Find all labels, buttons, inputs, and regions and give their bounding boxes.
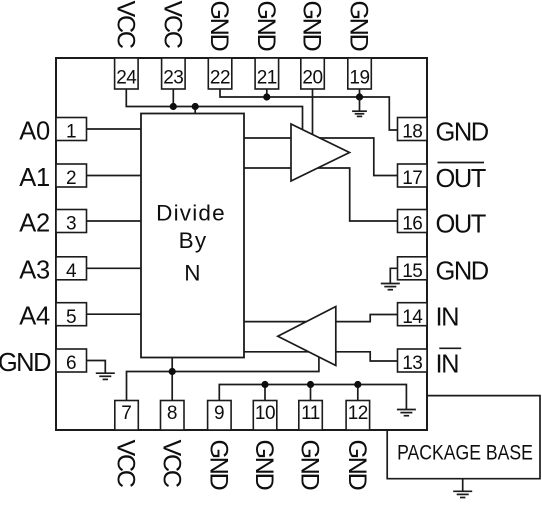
- pin 18 box: [398, 118, 428, 141]
- svg-text:GND: GND: [298, 1, 326, 51]
- svg-text:3: 3: [66, 214, 77, 235]
- ground G1 (top bus): [352, 97, 367, 116]
- pin 22 box: [208, 58, 232, 89]
- node junction dot pin10/bus: [261, 381, 268, 388]
- pin 8 box: [161, 401, 185, 431]
- wire pin5 to block: [87, 313, 142, 315]
- pin 6 box: [56, 349, 87, 372]
- wire pin15 to ground: [390, 268, 397, 283]
- wire block bottom stem / pin8 stem: [171, 358, 173, 401]
- node junction dot bus/block: [192, 103, 199, 110]
- wire block to buffer input 1: [244, 137, 291, 139]
- svg-text:22: 22: [210, 68, 230, 89]
- svg-text:GND: GND: [436, 258, 489, 286]
- svg-text:GND: GND: [250, 440, 278, 490]
- wire buffer out to pin16: [318, 168, 398, 221]
- pin 3 box: [56, 210, 87, 233]
- svg-text:N: N: [184, 261, 201, 286]
- wire GND net bottom: pin9 stem, bus, to ground: [219, 385, 406, 410]
- wire pin14 to input buffer: [336, 315, 398, 322]
- svg-text:GND: GND: [252, 1, 280, 51]
- pin 12 box: [346, 401, 370, 431]
- pin 9 box: [208, 401, 232, 431]
- pin 21 box: [255, 58, 279, 89]
- svg-text:6: 6: [66, 353, 77, 374]
- pin 20 box: [301, 58, 325, 89]
- pin 19 box: [348, 58, 372, 89]
- svg-text:21: 21: [257, 68, 277, 89]
- wire pin1 to block: [87, 128, 142, 130]
- wire pin19 stem: [359, 89, 361, 97]
- svg-text:VCC: VCC: [112, 1, 140, 49]
- svg-text:Divide: Divide: [156, 201, 226, 226]
- package base box: [387, 396, 540, 479]
- svg-text:13: 13: [402, 353, 422, 374]
- pin 2 box: [56, 164, 87, 187]
- svg-text:16: 16: [402, 214, 422, 235]
- node junction dot pin11/bus: [307, 381, 314, 388]
- pin 23 box: [162, 58, 186, 89]
- svg-text:24: 24: [116, 68, 137, 89]
- wire pin2 to block: [87, 175, 142, 177]
- svg-text:4: 4: [66, 261, 77, 282]
- svg-text:2: 2: [66, 168, 77, 189]
- pin 13 box: [398, 349, 428, 372]
- wire pin20 stem to buffer top edge: [312, 89, 314, 135]
- pin 24 box: [115, 58, 139, 89]
- svg-text:17: 17: [402, 168, 422, 189]
- overline OUTbar: [438, 162, 485, 164]
- svg-text:7: 7: [121, 403, 132, 424]
- wire pin11 stem: [310, 385, 312, 401]
- node junction dot pin8/bus: [169, 368, 176, 375]
- svg-text:GND: GND: [205, 440, 233, 490]
- wire GND net top: pin22 stem, bus, to pin18: [220, 89, 398, 130]
- wire buffer out to pin17: [320, 138, 398, 176]
- wire pin13 to input buffer: [336, 352, 398, 361]
- svg-text:PACKAGE BASE: PACKAGE BASE: [397, 441, 533, 465]
- wire pin3 to block: [87, 220, 142, 222]
- svg-text:GND: GND: [0, 349, 51, 377]
- ground G2 (pin 15): [381, 284, 400, 290]
- svg-text:9: 9: [214, 403, 225, 424]
- pin 11 box: [299, 401, 323, 431]
- wire pin23 stem: [172, 89, 174, 107]
- svg-text:By: By: [179, 228, 208, 253]
- wire block to buffer input 2: [244, 167, 291, 169]
- svg-text:8: 8: [167, 403, 178, 424]
- op-amp U2 output buffer: [291, 124, 350, 181]
- op-amp U3 input buffer: [278, 307, 336, 366]
- wire pin10 stem: [264, 385, 266, 401]
- divide-by-N block: [141, 114, 244, 358]
- svg-text:19: 19: [349, 68, 369, 89]
- svg-text:14: 14: [402, 307, 423, 328]
- svg-text:10: 10: [255, 403, 275, 424]
- ground G5 (package base): [453, 479, 472, 498]
- svg-text:IN: IN: [436, 351, 459, 379]
- svg-text:GND: GND: [296, 440, 324, 490]
- pin 15 box: [398, 257, 428, 280]
- pin 16 box: [398, 210, 428, 233]
- svg-text:15: 15: [402, 261, 422, 282]
- node junction dot pin19/bus: [356, 93, 363, 100]
- node junction dot pin23/bus: [170, 103, 177, 110]
- svg-text:IN: IN: [436, 304, 459, 332]
- svg-text:11: 11: [301, 403, 320, 424]
- svg-text:20: 20: [302, 68, 322, 89]
- svg-text:GND: GND: [436, 118, 489, 146]
- pin 14 box: [398, 303, 428, 326]
- pin 4 box: [56, 257, 87, 280]
- pin 1 box: [56, 118, 87, 141]
- wire pin12 stem: [357, 385, 359, 401]
- svg-text:5: 5: [66, 307, 77, 328]
- svg-text:A0: A0: [19, 117, 50, 145]
- pin 10 box: [253, 401, 276, 431]
- ground G4 (bottom bus): [397, 410, 416, 416]
- wire block top stem: [194, 107, 196, 114]
- wire input buffer to block lower: [244, 351, 309, 353]
- pin 7 box: [115, 401, 139, 431]
- svg-text:GND: GND: [345, 1, 373, 51]
- divide-by-N label: [156, 201, 226, 286]
- svg-text:VCC: VCC: [157, 440, 185, 488]
- svg-text:A3: A3: [19, 257, 50, 285]
- svg-text:18: 18: [402, 122, 422, 143]
- svg-text:A2: A2: [19, 209, 50, 237]
- svg-text:GND: GND: [205, 1, 233, 51]
- svg-text:OUT: OUT: [436, 165, 486, 193]
- svg-text:1: 1: [66, 122, 77, 143]
- svg-text:12: 12: [348, 403, 368, 424]
- svg-text:OUT: OUT: [436, 210, 486, 238]
- wire pin4 to block: [87, 267, 142, 269]
- wire pin6 to ground: [87, 361, 106, 374]
- wire pin21 stem: [266, 89, 268, 97]
- node junction dot pin12/bus: [354, 381, 361, 388]
- wire input buffer to block upper: [244, 321, 306, 323]
- svg-text:A4: A4: [19, 303, 50, 331]
- ground G3 (pin 6): [96, 373, 115, 379]
- chip outline U1: [56, 58, 427, 430]
- wire VCC net top: pin24 stem, bus, leg to buffer top edge: [126, 89, 302, 130]
- wire VCC net bottom: pin7 stem, bus, leg to input buffer bottom edge: [127, 357, 319, 401]
- overline INbar: [439, 347, 461, 349]
- svg-text:23: 23: [163, 68, 183, 89]
- pin 17 box: [398, 164, 428, 187]
- svg-text:VCC: VCC: [112, 440, 140, 488]
- svg-text:VCC: VCC: [159, 1, 187, 49]
- svg-text:A1: A1: [19, 164, 50, 192]
- pin 5 box: [56, 303, 87, 326]
- node junction dot pin21/bus: [263, 93, 270, 100]
- svg-text:GND: GND: [343, 440, 371, 490]
